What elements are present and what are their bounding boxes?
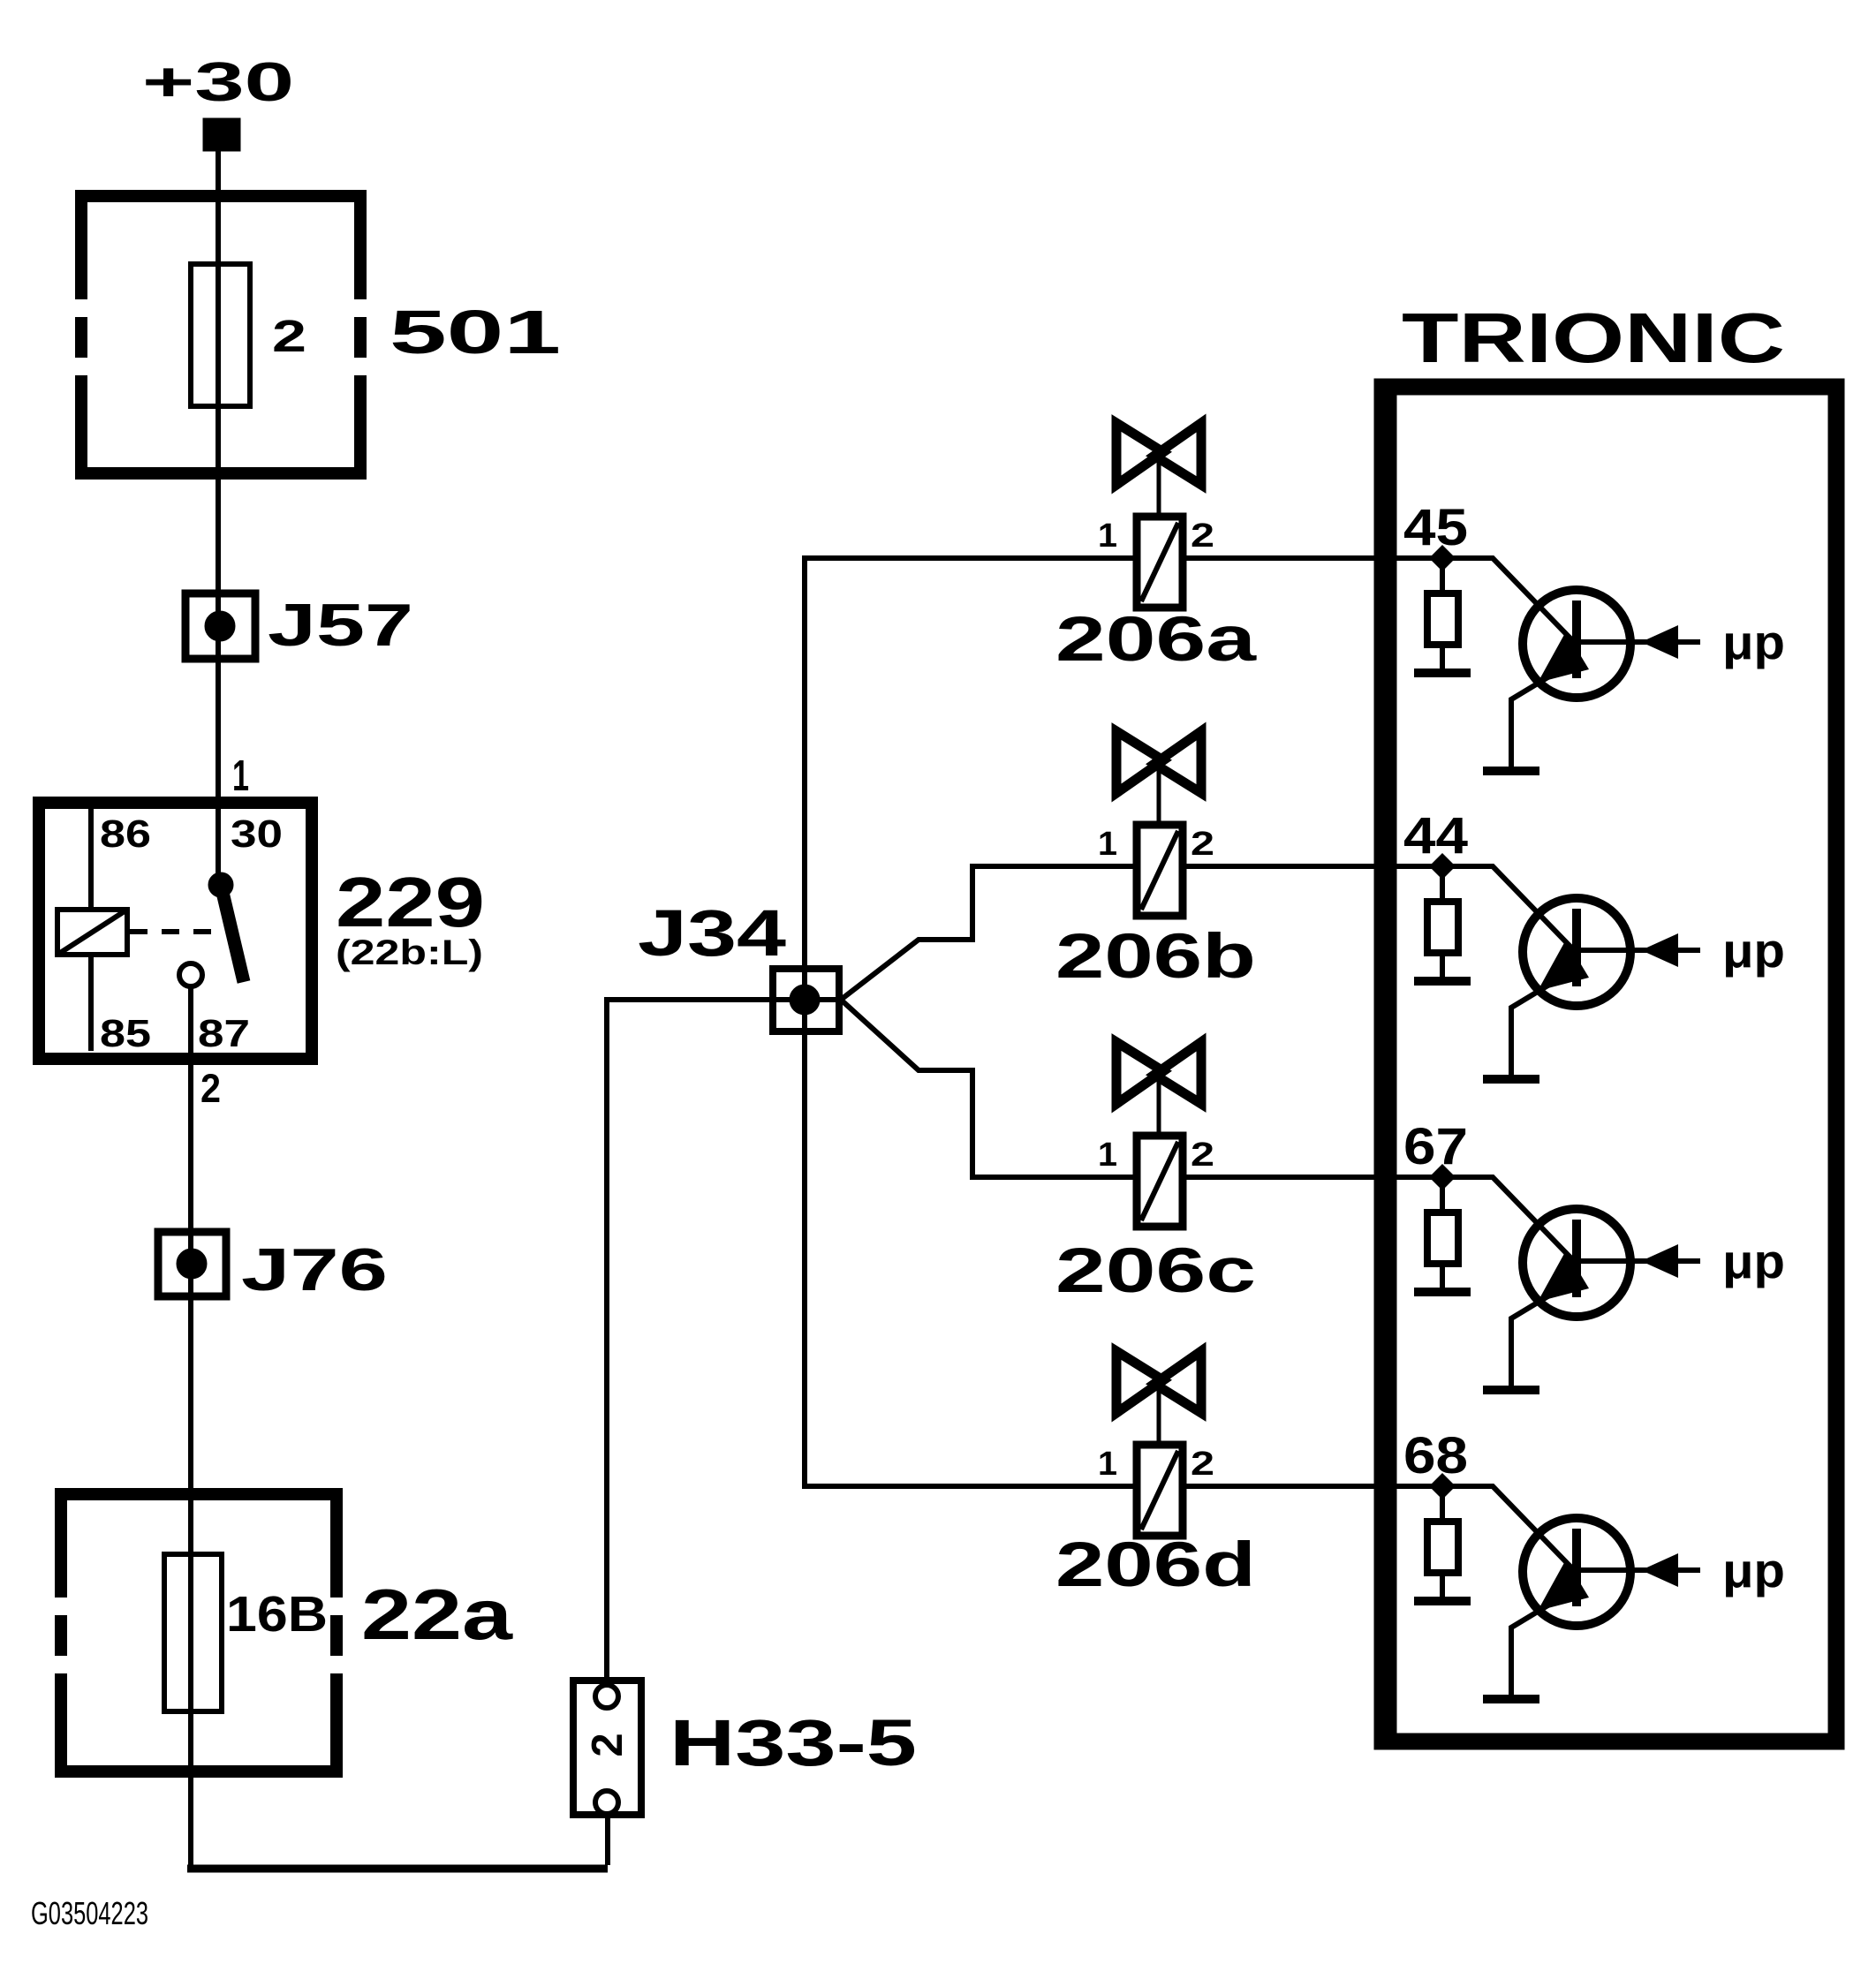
svg-text:2: 2 xyxy=(1191,1137,1214,1174)
svg-text:1: 1 xyxy=(232,752,249,800)
svg-text:206a: 206a xyxy=(1055,605,1257,675)
svg-text:+30: +30 xyxy=(142,52,294,113)
pull resistor at pin 68 xyxy=(1427,1486,1458,1597)
svg-text:G03504223: G03504223 xyxy=(31,1895,148,1931)
injector 206b coil element with pins 1 2 xyxy=(1098,825,1214,916)
svg-text:2: 2 xyxy=(272,311,306,361)
junction J76 xyxy=(158,1232,388,1303)
ground (transistor 68 emitter) xyxy=(1483,1695,1539,1703)
relay coil branch line (86-85) xyxy=(88,809,94,1051)
microprocessor base drive input (pin 67) xyxy=(1581,1234,1785,1288)
svg-text:2: 2 xyxy=(1191,517,1214,555)
wire relay 87 down through J76 and fuse 22a to bottom run xyxy=(188,986,193,1869)
svg-text:44: 44 xyxy=(1403,807,1468,865)
fuse box 22a (dashed component boundary) xyxy=(55,1488,343,1778)
svg-text:2: 2 xyxy=(1191,1446,1214,1483)
svg-text:2: 2 xyxy=(1191,826,1214,863)
pull resistor at pin 44 xyxy=(1427,866,1458,977)
relay 229 box xyxy=(39,803,312,1059)
wire +30 down through fuse 501 and J57 to relay contact 30 xyxy=(216,151,221,885)
driver transistor Q-44 xyxy=(1511,898,1630,1076)
ECU box TRIONIC xyxy=(1382,387,1836,1741)
svg-text:86: 86 xyxy=(100,812,151,856)
ECU box TRIONIC left border (thicker) xyxy=(1389,387,1397,1741)
injector 206d coil element with pins 1 2 xyxy=(1098,1445,1214,1536)
svg-text:μp: μp xyxy=(1722,1543,1785,1598)
pull resistor at pin 67 xyxy=(1427,1177,1458,1288)
svg-text:(22b:L): (22b:L) xyxy=(336,933,483,972)
ground (transistor 44 emitter) xyxy=(1483,1075,1539,1084)
main injector feed wire (206a top run, vertical bus, 206d bottom run) xyxy=(805,558,1133,1486)
fuse element 2 in 501 xyxy=(191,264,306,406)
injector 206c coil element with pins 1 2 xyxy=(1098,1136,1214,1227)
svg-text:67: 67 xyxy=(1403,1118,1468,1175)
svg-text:87: 87 xyxy=(198,1012,250,1055)
ground (resistor 44) xyxy=(1414,977,1471,986)
svg-text:85: 85 xyxy=(100,1012,151,1055)
wire J34 to 206c (lower fan-out) xyxy=(841,1000,1133,1177)
bottom wire run to H33-5 xyxy=(187,1865,608,1873)
power terminal +30 xyxy=(142,52,294,151)
injector 206b wire to ECU pin 44 and transistor collector xyxy=(1186,866,1574,950)
svg-text:1: 1 xyxy=(1098,517,1117,555)
svg-text:1: 1 xyxy=(1098,1446,1117,1483)
relay actuation dashed link xyxy=(130,929,218,934)
svg-text:22a: 22a xyxy=(361,1575,513,1655)
label 229 (22b:L) xyxy=(336,863,485,972)
relay pin labels 86 30 85 87 xyxy=(100,812,283,1055)
relay switch lever xyxy=(221,885,244,982)
ground (transistor 45 emitter) xyxy=(1483,767,1539,775)
injector 206a valve symbol (bowtie) xyxy=(1116,423,1201,517)
driver transistor Q-67 xyxy=(1511,1209,1630,1386)
svg-text:H33-5: H33-5 xyxy=(669,1706,917,1779)
ground (resistor 45) xyxy=(1414,668,1471,677)
svg-text:501: 501 xyxy=(390,298,561,366)
node pin 44 (junction diamond) xyxy=(1429,853,1456,880)
svg-text:206d: 206d xyxy=(1055,1530,1256,1600)
svg-text:μp: μp xyxy=(1722,923,1785,978)
node pin 67 (junction diamond) xyxy=(1429,1164,1456,1190)
injector 206c valve symbol (bowtie) xyxy=(1116,1042,1201,1136)
relay coil xyxy=(57,910,127,955)
injector 206a wire to ECU pin 45 and transistor collector xyxy=(1186,558,1574,642)
driver transistor Q-45 xyxy=(1511,590,1630,767)
svg-text:μp: μp xyxy=(1722,615,1785,669)
svg-text:J57: J57 xyxy=(268,592,413,659)
svg-text:30: 30 xyxy=(231,812,283,856)
injector 206d valve symbol (bowtie) xyxy=(1116,1351,1201,1445)
ground (resistor 67) xyxy=(1414,1288,1471,1296)
svg-text:45: 45 xyxy=(1403,499,1468,556)
injector 206c wire to ECU pin 67 and transistor collector xyxy=(1186,1177,1574,1261)
driver transistor Q-68 xyxy=(1511,1518,1630,1696)
svg-text:206b: 206b xyxy=(1055,922,1256,992)
riser wire to H33-5 pin xyxy=(605,1818,610,1865)
microprocessor base drive input (pin 45) xyxy=(1581,615,1785,669)
junction J57 xyxy=(185,592,413,659)
svg-text:μp: μp xyxy=(1722,1234,1785,1288)
connector H33-5 xyxy=(573,1681,917,1815)
svg-text:TRIONIC: TRIONIC xyxy=(1402,298,1785,377)
svg-text:16B: 16B xyxy=(226,1586,328,1643)
injector 206d wire to ECU pin 68 and transistor collector xyxy=(1186,1486,1574,1570)
wire J34 to 206b (upper fan-out) xyxy=(841,866,1133,1000)
relay contact 30 (pivot dot) xyxy=(208,872,233,897)
svg-text:1: 1 xyxy=(1098,826,1117,863)
microprocessor base drive input (pin 68) xyxy=(1581,1543,1785,1598)
svg-text:J34: J34 xyxy=(638,896,786,970)
node pin 45 (junction diamond) xyxy=(1429,545,1456,571)
svg-text:2: 2 xyxy=(584,1733,632,1756)
fuse element 16B in 22a xyxy=(164,1554,328,1711)
svg-text:229: 229 xyxy=(336,863,485,941)
wire H33-5 to J34 and J34 left branch xyxy=(607,1000,841,1677)
microprocessor base drive input (pin 44) xyxy=(1581,923,1785,978)
fuse box 501 (dashed component boundary) xyxy=(75,190,367,480)
ground (transistor 67 emitter) xyxy=(1483,1386,1539,1394)
pull resistor at pin 45 xyxy=(1427,558,1458,668)
svg-text:J76: J76 xyxy=(241,1236,388,1303)
relay contact 87 (open circle) xyxy=(179,963,202,986)
ground (resistor 68) xyxy=(1414,1597,1471,1605)
svg-text:68: 68 xyxy=(1403,1427,1468,1484)
injector 206a coil element with pins 1 2 xyxy=(1098,517,1214,608)
svg-text:1: 1 xyxy=(1098,1137,1117,1174)
junction J34 xyxy=(638,896,839,1031)
injector 206b valve symbol (bowtie) xyxy=(1116,731,1201,825)
svg-text:2: 2 xyxy=(200,1066,221,1111)
svg-text:206c: 206c xyxy=(1055,1236,1256,1306)
node pin 68 (junction diamond) xyxy=(1429,1473,1456,1499)
